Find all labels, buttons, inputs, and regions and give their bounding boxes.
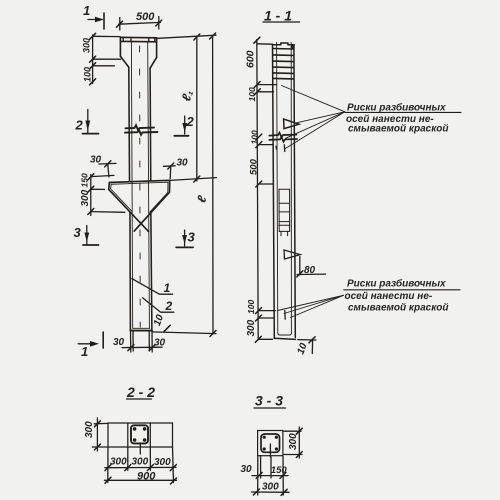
svg-text:300: 300 <box>288 433 299 450</box>
3-3 square <box>258 431 283 456</box>
3-3 center tick <box>269 444 271 457</box>
2-2 left dim 300 <box>84 418 108 451</box>
svg-text:150: 150 <box>271 465 288 476</box>
svg-text:смываемой краской: смываемой краской <box>348 124 449 135</box>
shaft inner chamfer lines <box>131 42 149 329</box>
head band verticals <box>123 37 155 42</box>
lower note text <box>344 278 460 314</box>
svg-text:смываемой краской: смываемой краской <box>348 303 449 314</box>
svg-text:300: 300 <box>154 457 171 468</box>
1-1 dim 80 <box>297 257 326 277</box>
3-3 right dim 300 <box>284 427 302 458</box>
1-1 break symbol <box>269 133 297 142</box>
column head outline <box>120 37 156 68</box>
shaft outer edges <box>129 67 152 330</box>
1-1 triangle mark upper <box>284 119 299 129</box>
1-1 top ladder rungs <box>273 49 293 79</box>
1-1 triangle mark lower <box>284 250 300 259</box>
left dim chain corbel (150/300) <box>80 173 125 215</box>
1-1 riska tick lower <box>284 311 286 320</box>
title 3-3 <box>254 393 286 409</box>
1-1 left dim chain <box>245 37 277 342</box>
1-1 bar outline <box>273 43 296 339</box>
title 1-1 <box>263 8 300 24</box>
svg-text:3: 3 <box>74 225 82 240</box>
svg-text:1: 1 <box>83 3 90 18</box>
section mark 3 left <box>74 225 99 245</box>
section mark 1 top <box>83 3 104 29</box>
2-2 overall 900 <box>105 471 177 485</box>
svg-text:30: 30 <box>241 464 253 475</box>
3-3 overall 300 <box>252 482 290 496</box>
break symbol mid-shaft <box>125 125 158 135</box>
1-1 mid cage <box>279 189 290 236</box>
svg-text:100: 100 <box>83 67 93 82</box>
svg-text:100: 100 <box>250 130 260 144</box>
corbel inner offset line <box>111 182 168 212</box>
svg-text:300: 300 <box>82 38 92 53</box>
svg-text:300: 300 <box>132 456 149 467</box>
svg-text:100: 100 <box>247 87 257 101</box>
section mark 3 right <box>176 230 195 248</box>
svg-text:80: 80 <box>304 265 316 276</box>
2-2 bottom dims 300x3 <box>105 447 176 483</box>
svg-text:Риски разбивочных: Риски разбивочных <box>347 278 446 290</box>
3-3 rebar dots <box>263 436 278 451</box>
corbel outline <box>109 180 170 231</box>
svg-text:2: 2 <box>186 114 195 129</box>
lower leader fan <box>278 295 344 317</box>
svg-text:1: 1 <box>81 344 88 359</box>
1-1 bottom right dim 10 <box>295 337 316 356</box>
2-2 outline <box>108 423 173 447</box>
svg-text:500: 500 <box>249 158 260 175</box>
svg-text:100: 100 <box>246 300 256 314</box>
svg-text:1: 1 <box>164 281 171 295</box>
right dim line l overall <box>194 33 216 337</box>
dimension 500 top <box>117 11 162 30</box>
svg-text:30: 30 <box>113 337 125 348</box>
svg-text:2 - 2: 2 - 2 <box>126 384 155 400</box>
section mark 2 left <box>75 110 99 134</box>
svg-text:3: 3 <box>188 230 196 245</box>
1-1 inner lines <box>277 42 292 335</box>
svg-text:600: 600 <box>245 50 257 68</box>
2-2 center tick below <box>139 444 141 454</box>
svg-text:300: 300 <box>246 319 257 336</box>
svg-text:3 - 3: 3 - 3 <box>255 393 283 409</box>
svg-text:300: 300 <box>262 482 279 493</box>
upper leader fan <box>282 86 345 150</box>
dim 30 right of corbel <box>164 158 189 179</box>
title 2-2 <box>126 384 155 400</box>
svg-text:2: 2 <box>75 118 84 133</box>
centerline axis of shaft <box>139 46 142 327</box>
leader label 2 <box>143 298 174 313</box>
svg-text:2: 2 <box>165 299 173 313</box>
leader label 1 <box>132 279 173 295</box>
svg-text:300: 300 <box>110 456 127 467</box>
svg-text:900: 900 <box>137 471 156 483</box>
svg-text:500: 500 <box>136 11 155 23</box>
upper note text <box>345 102 461 135</box>
svg-text:осей нанести не-: осей нанести не- <box>345 291 433 302</box>
svg-text:30: 30 <box>177 158 189 169</box>
3-3 bottom dims 30/150 <box>241 456 289 495</box>
section mark 1 bottom <box>78 332 103 359</box>
svg-text:1 - 1: 1 - 1 <box>264 8 292 24</box>
3-3 inner rounded square <box>261 434 280 452</box>
svg-text:150: 150 <box>80 173 90 187</box>
dim 30 left of corbel <box>90 155 116 178</box>
section mark 2 right <box>174 114 194 136</box>
bottom dims 30/30 <box>113 332 166 353</box>
1-1 top right corner blob <box>291 45 295 49</box>
2-2 rebar dots <box>133 427 147 442</box>
1-1 riska tick upper <box>283 145 286 152</box>
bottom 10 dim and extension to overall line <box>152 313 216 334</box>
svg-text:300: 300 <box>80 189 91 206</box>
svg-text:Риски разбивочных: Риски разбивочных <box>347 102 446 114</box>
right dim line l1 <box>158 34 217 182</box>
2-2 column section square <box>131 425 148 443</box>
svg-text:300: 300 <box>84 421 95 438</box>
left dim chain head (300/100) <box>82 33 121 85</box>
